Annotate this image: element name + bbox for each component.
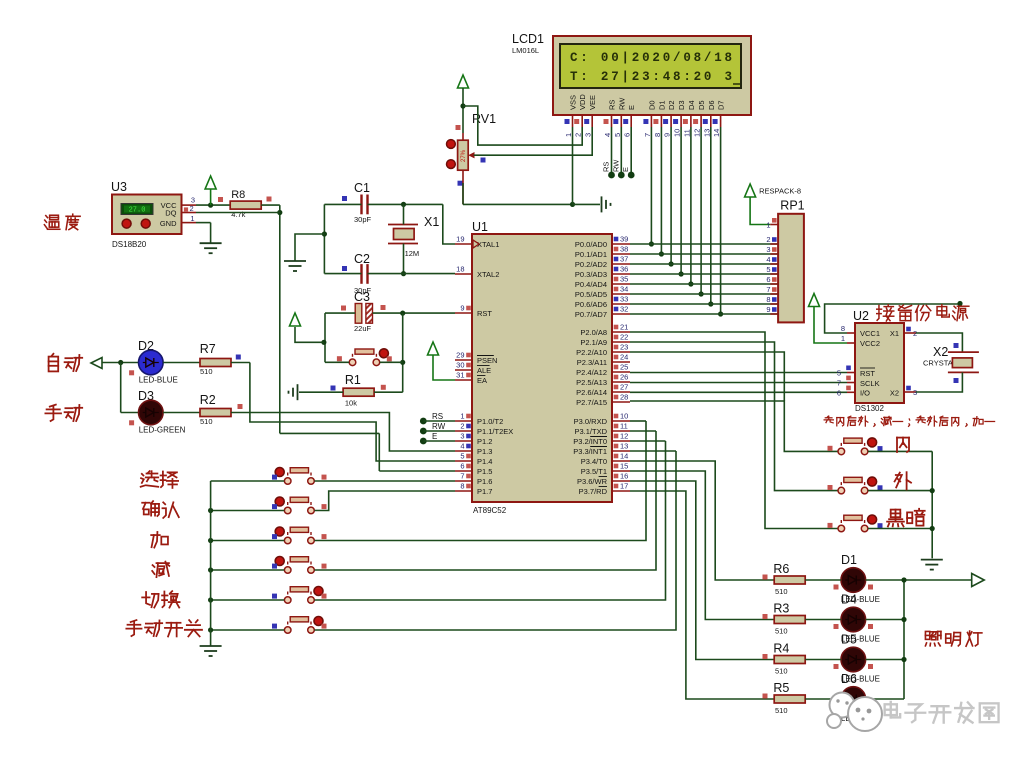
svg-text:4: 4 xyxy=(766,255,770,264)
svg-text:LCD1: LCD1 xyxy=(512,32,544,46)
svg-text:VEE: VEE xyxy=(588,95,597,110)
svg-text:7: 7 xyxy=(460,472,464,481)
svg-text:R3: R3 xyxy=(773,602,789,616)
svg-text:D1: D1 xyxy=(841,553,857,567)
svg-text:6: 6 xyxy=(837,388,841,397)
svg-text:5: 5 xyxy=(460,452,464,461)
svg-text:P3.1/TXD: P3.1/TXD xyxy=(574,427,607,436)
svg-text:X1: X1 xyxy=(890,329,899,338)
svg-text:27: 27 xyxy=(620,383,628,392)
svg-text:C2: C2 xyxy=(354,252,370,266)
svg-text:D3: D3 xyxy=(677,100,686,110)
svg-text:R1: R1 xyxy=(345,373,361,387)
svg-text:9: 9 xyxy=(663,133,672,137)
svg-text:21: 21 xyxy=(620,323,628,332)
svg-text:3: 3 xyxy=(460,432,464,441)
svg-text:2: 2 xyxy=(460,422,464,431)
svg-text:U1: U1 xyxy=(472,220,488,234)
svg-text:P0.0/AD0: P0.0/AD0 xyxy=(575,240,607,249)
svg-text:2: 2 xyxy=(766,235,770,244)
svg-text:PSEN: PSEN xyxy=(477,356,497,365)
svg-text:11: 11 xyxy=(620,422,628,431)
svg-text:6: 6 xyxy=(766,275,770,284)
svg-text:1: 1 xyxy=(460,412,464,421)
svg-text:1: 1 xyxy=(841,334,845,343)
svg-text:RV1: RV1 xyxy=(472,112,496,126)
svg-text:D2: D2 xyxy=(667,100,676,110)
svg-text:RW: RW xyxy=(432,422,446,431)
svg-text:R8: R8 xyxy=(231,189,245,201)
svg-text:30pF: 30pF xyxy=(354,215,372,224)
svg-text:510: 510 xyxy=(775,587,788,596)
svg-text:13: 13 xyxy=(702,129,711,137)
svg-text:DS18B20: DS18B20 xyxy=(112,240,147,249)
svg-text:27%: 27% xyxy=(461,149,467,162)
svg-text:24: 24 xyxy=(620,353,628,362)
svg-text:VCC1: VCC1 xyxy=(860,329,880,338)
svg-text:D5: D5 xyxy=(841,633,857,647)
svg-text:XTAL1: XTAL1 xyxy=(477,240,499,249)
svg-text:E: E xyxy=(432,432,437,441)
svg-text:E: E xyxy=(627,105,636,110)
svg-text:RW: RW xyxy=(617,97,626,110)
svg-text:P2.0/A8: P2.0/A8 xyxy=(580,328,607,337)
svg-text:RP1: RP1 xyxy=(780,199,804,213)
svg-text:GND: GND xyxy=(160,219,177,228)
svg-text:35: 35 xyxy=(620,275,628,284)
svg-text:RS: RS xyxy=(602,162,611,172)
svg-text:C: 00|2020/08/18: C: 00|2020/08/18 xyxy=(570,51,735,65)
svg-text:ALE: ALE xyxy=(477,366,491,375)
svg-text:C3: C3 xyxy=(354,290,370,304)
svg-text:D6: D6 xyxy=(707,100,716,110)
svg-text:D1: D1 xyxy=(657,100,666,110)
svg-text:P0.6/AD6: P0.6/AD6 xyxy=(575,300,607,309)
svg-text:5: 5 xyxy=(766,265,770,274)
svg-text:510: 510 xyxy=(200,417,213,426)
svg-text:P1.7: P1.7 xyxy=(477,487,492,496)
svg-text:P3.3/INT1: P3.3/INT1 xyxy=(573,447,607,456)
svg-text:R4: R4 xyxy=(773,642,789,656)
svg-text:P2.6/A14: P2.6/A14 xyxy=(576,388,607,397)
svg-text:9: 9 xyxy=(460,304,464,313)
svg-text:38: 38 xyxy=(620,245,628,254)
svg-text:4: 4 xyxy=(603,133,612,137)
svg-text:32: 32 xyxy=(620,305,628,314)
svg-text:P3.2/INT0: P3.2/INT0 xyxy=(573,437,607,446)
svg-text:7: 7 xyxy=(643,133,652,137)
svg-text:R5: R5 xyxy=(773,681,789,695)
svg-text:C1: C1 xyxy=(354,181,370,195)
svg-text:D4: D4 xyxy=(687,100,696,110)
svg-text:AT89C52: AT89C52 xyxy=(473,506,507,515)
svg-text:P3.7/RD: P3.7/RD xyxy=(579,487,608,496)
svg-text:XTAL2: XTAL2 xyxy=(477,270,499,279)
svg-text:1: 1 xyxy=(766,221,770,230)
svg-text:510: 510 xyxy=(775,706,788,715)
svg-text:13: 13 xyxy=(620,442,628,451)
svg-text:17: 17 xyxy=(620,482,628,491)
svg-text:23: 23 xyxy=(620,343,628,352)
svg-text:36: 36 xyxy=(620,265,628,274)
svg-text:34: 34 xyxy=(620,285,628,294)
svg-text:22: 22 xyxy=(620,333,628,342)
svg-text:P2.2/A10: P2.2/A10 xyxy=(576,348,607,357)
svg-text:RS: RS xyxy=(432,412,443,421)
svg-text:27.0: 27.0 xyxy=(129,207,146,215)
svg-text:22uF: 22uF xyxy=(354,324,372,333)
svg-text:P0.1/AD1: P0.1/AD1 xyxy=(575,250,607,259)
svg-text:X1: X1 xyxy=(424,215,439,229)
svg-text:P2.3/A11: P2.3/A11 xyxy=(577,358,607,367)
svg-text:37: 37 xyxy=(620,255,628,264)
svg-text:R2: R2 xyxy=(200,393,216,407)
svg-text:DQ: DQ xyxy=(165,209,176,218)
svg-text:D7: D7 xyxy=(717,100,726,110)
svg-text:510: 510 xyxy=(200,367,213,376)
svg-text:3: 3 xyxy=(766,245,770,254)
svg-text:RS: RS xyxy=(608,100,617,110)
svg-text:30: 30 xyxy=(456,361,464,370)
svg-text:VCC2: VCC2 xyxy=(860,339,880,348)
svg-text:P0.3/AD3: P0.3/AD3 xyxy=(575,270,607,279)
svg-text:12M: 12M xyxy=(405,249,420,258)
svg-text:10: 10 xyxy=(620,412,628,421)
svg-text:P2.7/A15: P2.7/A15 xyxy=(576,398,607,407)
svg-text:RST: RST xyxy=(477,309,492,318)
svg-text:D6: D6 xyxy=(841,672,857,686)
svg-text:P1.5: P1.5 xyxy=(477,467,492,476)
svg-text:RW: RW xyxy=(611,159,620,172)
svg-text:LED-GREEN: LED-GREEN xyxy=(139,426,186,435)
svg-text:6: 6 xyxy=(460,462,464,471)
svg-text:P2.4/A12: P2.4/A12 xyxy=(576,368,607,377)
svg-text:P3.0/RXD: P3.0/RXD xyxy=(574,417,608,426)
svg-text:P0.7/AD7: P0.7/AD7 xyxy=(575,310,607,319)
svg-text:P0.5/AD5: P0.5/AD5 xyxy=(575,290,607,299)
svg-text:4: 4 xyxy=(460,442,464,451)
svg-text:5: 5 xyxy=(613,133,622,137)
svg-text:I/O: I/O xyxy=(860,389,870,398)
svg-text:DS1302: DS1302 xyxy=(855,404,884,413)
svg-text:RST: RST xyxy=(860,369,875,378)
svg-text:12: 12 xyxy=(693,129,702,137)
svg-text:12: 12 xyxy=(620,432,628,441)
svg-text:E: E xyxy=(621,167,630,172)
svg-text:P1.2: P1.2 xyxy=(477,437,492,446)
svg-text:P3.5/T1: P3.5/T1 xyxy=(581,467,607,476)
svg-text:7: 7 xyxy=(837,379,841,388)
svg-text:9: 9 xyxy=(766,305,770,314)
svg-text:R6: R6 xyxy=(773,562,789,576)
svg-text:P1.6: P1.6 xyxy=(477,477,492,486)
svg-text:D5: D5 xyxy=(697,100,706,110)
svg-text:VSS: VSS xyxy=(569,95,578,110)
svg-text:X2: X2 xyxy=(933,345,948,359)
svg-text:510: 510 xyxy=(775,627,788,636)
svg-text:P0.4/AD4: P0.4/AD4 xyxy=(575,280,607,289)
svg-text:P1.0/T2: P1.0/T2 xyxy=(477,417,503,426)
svg-text:P3.6/WR: P3.6/WR xyxy=(577,477,608,486)
svg-text:18: 18 xyxy=(456,265,464,274)
svg-text:14: 14 xyxy=(712,129,721,137)
svg-text:2: 2 xyxy=(574,133,583,137)
svg-text:X2: X2 xyxy=(890,389,899,398)
svg-text:10: 10 xyxy=(673,129,682,137)
svg-text:510: 510 xyxy=(775,667,788,676)
svg-text:4.7k: 4.7k xyxy=(231,210,245,219)
svg-text:16: 16 xyxy=(620,472,628,481)
svg-text:P3.4/T0: P3.4/T0 xyxy=(581,457,607,466)
svg-text:7: 7 xyxy=(766,285,770,294)
svg-text:8: 8 xyxy=(460,482,464,491)
svg-text:8: 8 xyxy=(653,133,662,137)
svg-text:LM016L: LM016L xyxy=(512,46,539,55)
svg-text:U3: U3 xyxy=(111,180,127,194)
svg-text:19: 19 xyxy=(456,235,464,244)
svg-text:LED-BLUE: LED-BLUE xyxy=(139,376,178,385)
svg-text:6: 6 xyxy=(623,133,632,137)
svg-text:29: 29 xyxy=(456,351,464,360)
svg-text:31: 31 xyxy=(456,371,464,380)
svg-text:11: 11 xyxy=(682,129,691,137)
svg-text:10k: 10k xyxy=(345,399,357,408)
svg-text:28: 28 xyxy=(620,393,628,402)
svg-text:5: 5 xyxy=(837,369,841,378)
svg-text:3: 3 xyxy=(584,133,593,137)
svg-text:33: 33 xyxy=(620,295,628,304)
svg-text:14: 14 xyxy=(620,452,628,461)
svg-text:D0: D0 xyxy=(647,100,656,110)
svg-text:R7: R7 xyxy=(200,342,216,356)
svg-text:1: 1 xyxy=(564,133,573,137)
svg-text:P1.1/T2EX: P1.1/T2EX xyxy=(477,427,513,436)
svg-text:26: 26 xyxy=(620,373,628,382)
svg-text:8: 8 xyxy=(766,295,770,304)
svg-text:RESPACK-8: RESPACK-8 xyxy=(759,187,801,196)
svg-text:P2.5/A13: P2.5/A13 xyxy=(576,378,607,387)
svg-text:8: 8 xyxy=(841,324,845,333)
svg-text:P2.1/A9: P2.1/A9 xyxy=(580,338,607,347)
svg-text:39: 39 xyxy=(620,235,628,244)
svg-text:T: 27|23:48:20 3: T: 27|23:48:20 3 xyxy=(570,70,735,84)
svg-text:SCLK: SCLK xyxy=(860,379,880,388)
svg-text:1: 1 xyxy=(190,214,194,223)
svg-text:EA: EA xyxy=(477,376,487,385)
svg-text:D4: D4 xyxy=(841,593,857,607)
svg-text:25: 25 xyxy=(620,363,628,372)
svg-text:P1.3: P1.3 xyxy=(477,447,492,456)
svg-text:15: 15 xyxy=(620,462,628,471)
svg-text:U2: U2 xyxy=(853,309,869,323)
svg-text:2: 2 xyxy=(190,204,194,213)
svg-text:P1.4: P1.4 xyxy=(477,457,492,466)
svg-text:VDD: VDD xyxy=(578,94,587,110)
svg-text:P0.2/AD2: P0.2/AD2 xyxy=(575,260,607,269)
